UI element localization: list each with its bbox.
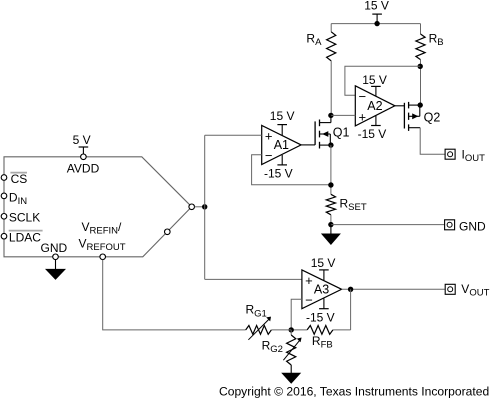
svg-text:A2: A2	[367, 99, 382, 113]
pin bubble on diagonal	[165, 229, 171, 235]
svg-text:15 V: 15 V	[362, 73, 387, 87]
svg-text:−: −	[359, 89, 367, 104]
svg-text:LDAC: LDAC	[9, 231, 41, 245]
resistor RG2 (variable)	[287, 335, 296, 365]
wire RB top lead	[420, 24, 422, 34]
wire A3 minus input loop	[291, 299, 302, 330]
-15V supply symbol A2	[371, 125, 381, 127]
svg-text:15 V: 15 V	[270, 109, 295, 123]
resistor RG1 (variable)	[246, 326, 272, 335]
svg-text:−: −	[305, 292, 313, 307]
wire Q1 source to RSET	[330, 145, 332, 194]
resistor RSET	[326, 194, 335, 215]
node RB bottom junction	[418, 64, 423, 69]
svg-text:+: +	[305, 273, 313, 288]
svg-text:-15 V: -15 V	[264, 167, 293, 181]
connector GND	[445, 220, 455, 230]
svg-text:Q2: Q2	[424, 110, 441, 124]
svg-text:Copyright © 2016, Texas Instru: Copyright © 2016, Texas Instruments Inco…	[219, 384, 489, 398]
svg-text:+: +	[265, 129, 273, 144]
node Q1 source junction	[328, 142, 333, 147]
-15V supply symbol A3	[319, 308, 329, 310]
pin SCLK bubble	[1, 214, 7, 220]
svg-text:+: +	[359, 109, 367, 124]
5V supply symbol	[79, 146, 89, 148]
15V supply symbol A3	[319, 269, 329, 271]
node RSET top junction	[328, 182, 333, 187]
svg-text:−: −	[265, 148, 273, 163]
wire A1 feedback loop	[252, 155, 331, 185]
ground symbol (DAC GND)	[45, 269, 66, 280]
transistor Q2	[403, 103, 405, 129]
svg-text:A3: A3	[314, 283, 329, 297]
wire Q2 drain to IOUT	[420, 128, 445, 155]
node DAC bus junction	[202, 204, 207, 209]
connector VOUT	[445, 284, 455, 294]
node RSET bottom junction	[328, 222, 333, 227]
transistor Q1	[314, 121, 316, 144]
resistor RB	[416, 34, 425, 60]
resistor RA	[327, 32, 336, 61]
node feedback junction	[289, 327, 294, 332]
wire A2 output to Q2 gate	[395, 105, 405, 107]
wire RFB right lead	[333, 329, 351, 331]
node Q2 source junction	[418, 102, 423, 107]
svg-text:-15 V: -15 V	[306, 311, 335, 325]
ground symbol (RG2)	[281, 373, 301, 384]
svg-text:A1: A1	[274, 138, 289, 152]
op-amp A3	[302, 270, 342, 309]
wire A2 plus input	[331, 114, 355, 116]
wire RG2 ground stub	[290, 365, 292, 373]
arrow RG1	[248, 319, 269, 340]
svg-text:15 V: 15 V	[364, 0, 389, 13]
wire A1 plus input from bus	[205, 134, 262, 136]
pin DAC-out bubble	[189, 204, 195, 210]
wire A2 feedback from RB node	[345, 66, 420, 95]
wire RSET bottom lead	[330, 215, 332, 225]
pin AVDD bubble	[81, 154, 87, 160]
pin CS bubble	[1, 175, 7, 181]
svg-text:15 V: 15 V	[311, 256, 336, 270]
wire RFB left lead	[291, 329, 307, 331]
resistor RFB	[307, 326, 333, 335]
wire bus vertical	[204, 135, 206, 279]
wire VREFOUT down and right to RG1	[103, 260, 246, 330]
wire RA bottom to Q1 drain node	[330, 61, 332, 116]
wire DAC output to bus node	[195, 206, 205, 208]
svg-text:CS: CS	[11, 172, 28, 186]
pin LDAC bubble	[1, 233, 7, 239]
svg-text:-15 V: -15 V	[358, 127, 387, 141]
-15V supply symbol A1	[277, 164, 287, 166]
wire RA top lead	[330, 24, 332, 32]
wire RB bottom to Q2 source	[420, 60, 422, 105]
15V supply symbol A2	[371, 85, 381, 87]
15V supply symbol A1	[277, 124, 287, 126]
pin GND bubble	[53, 254, 59, 260]
DAC block outline	[4, 157, 192, 257]
wire RSET node to GND connector	[331, 224, 445, 226]
wire A3 output	[342, 288, 445, 290]
ground symbol (RSET)	[321, 234, 341, 246]
svg-text:SCLK: SCLK	[9, 211, 40, 225]
wire A1 output to Q1 gate	[301, 144, 315, 146]
wire 15V top rail	[331, 23, 420, 25]
wire bus to A3 plus input	[205, 278, 302, 280]
pin DIN bubble	[1, 193, 7, 199]
GND pin ground stub	[55, 260, 57, 269]
op-amp A1	[262, 125, 301, 164]
wire RG1 to node	[271, 329, 291, 331]
svg-text:AVDD: AVDD	[67, 161, 100, 175]
svg-text:5 V: 5 V	[73, 133, 91, 147]
connector IOUT	[445, 149, 455, 159]
node A3 output junction	[348, 287, 353, 292]
arrow RG2	[283, 340, 300, 360]
wire A3 output feedback down	[350, 289, 352, 330]
svg-text:Q1: Q1	[333, 125, 350, 139]
svg-text:GND: GND	[41, 241, 68, 255]
wire node to RG2	[290, 330, 292, 335]
node top rail junction	[374, 21, 379, 26]
15V supply symbol top	[372, 13, 382, 15]
node Q1 drain junction	[328, 113, 333, 118]
op-amp A2	[355, 86, 395, 126]
svg-text:GND: GND	[459, 220, 486, 234]
pin VREF bubble	[100, 254, 106, 260]
wire RSET ground stub	[330, 225, 332, 234]
